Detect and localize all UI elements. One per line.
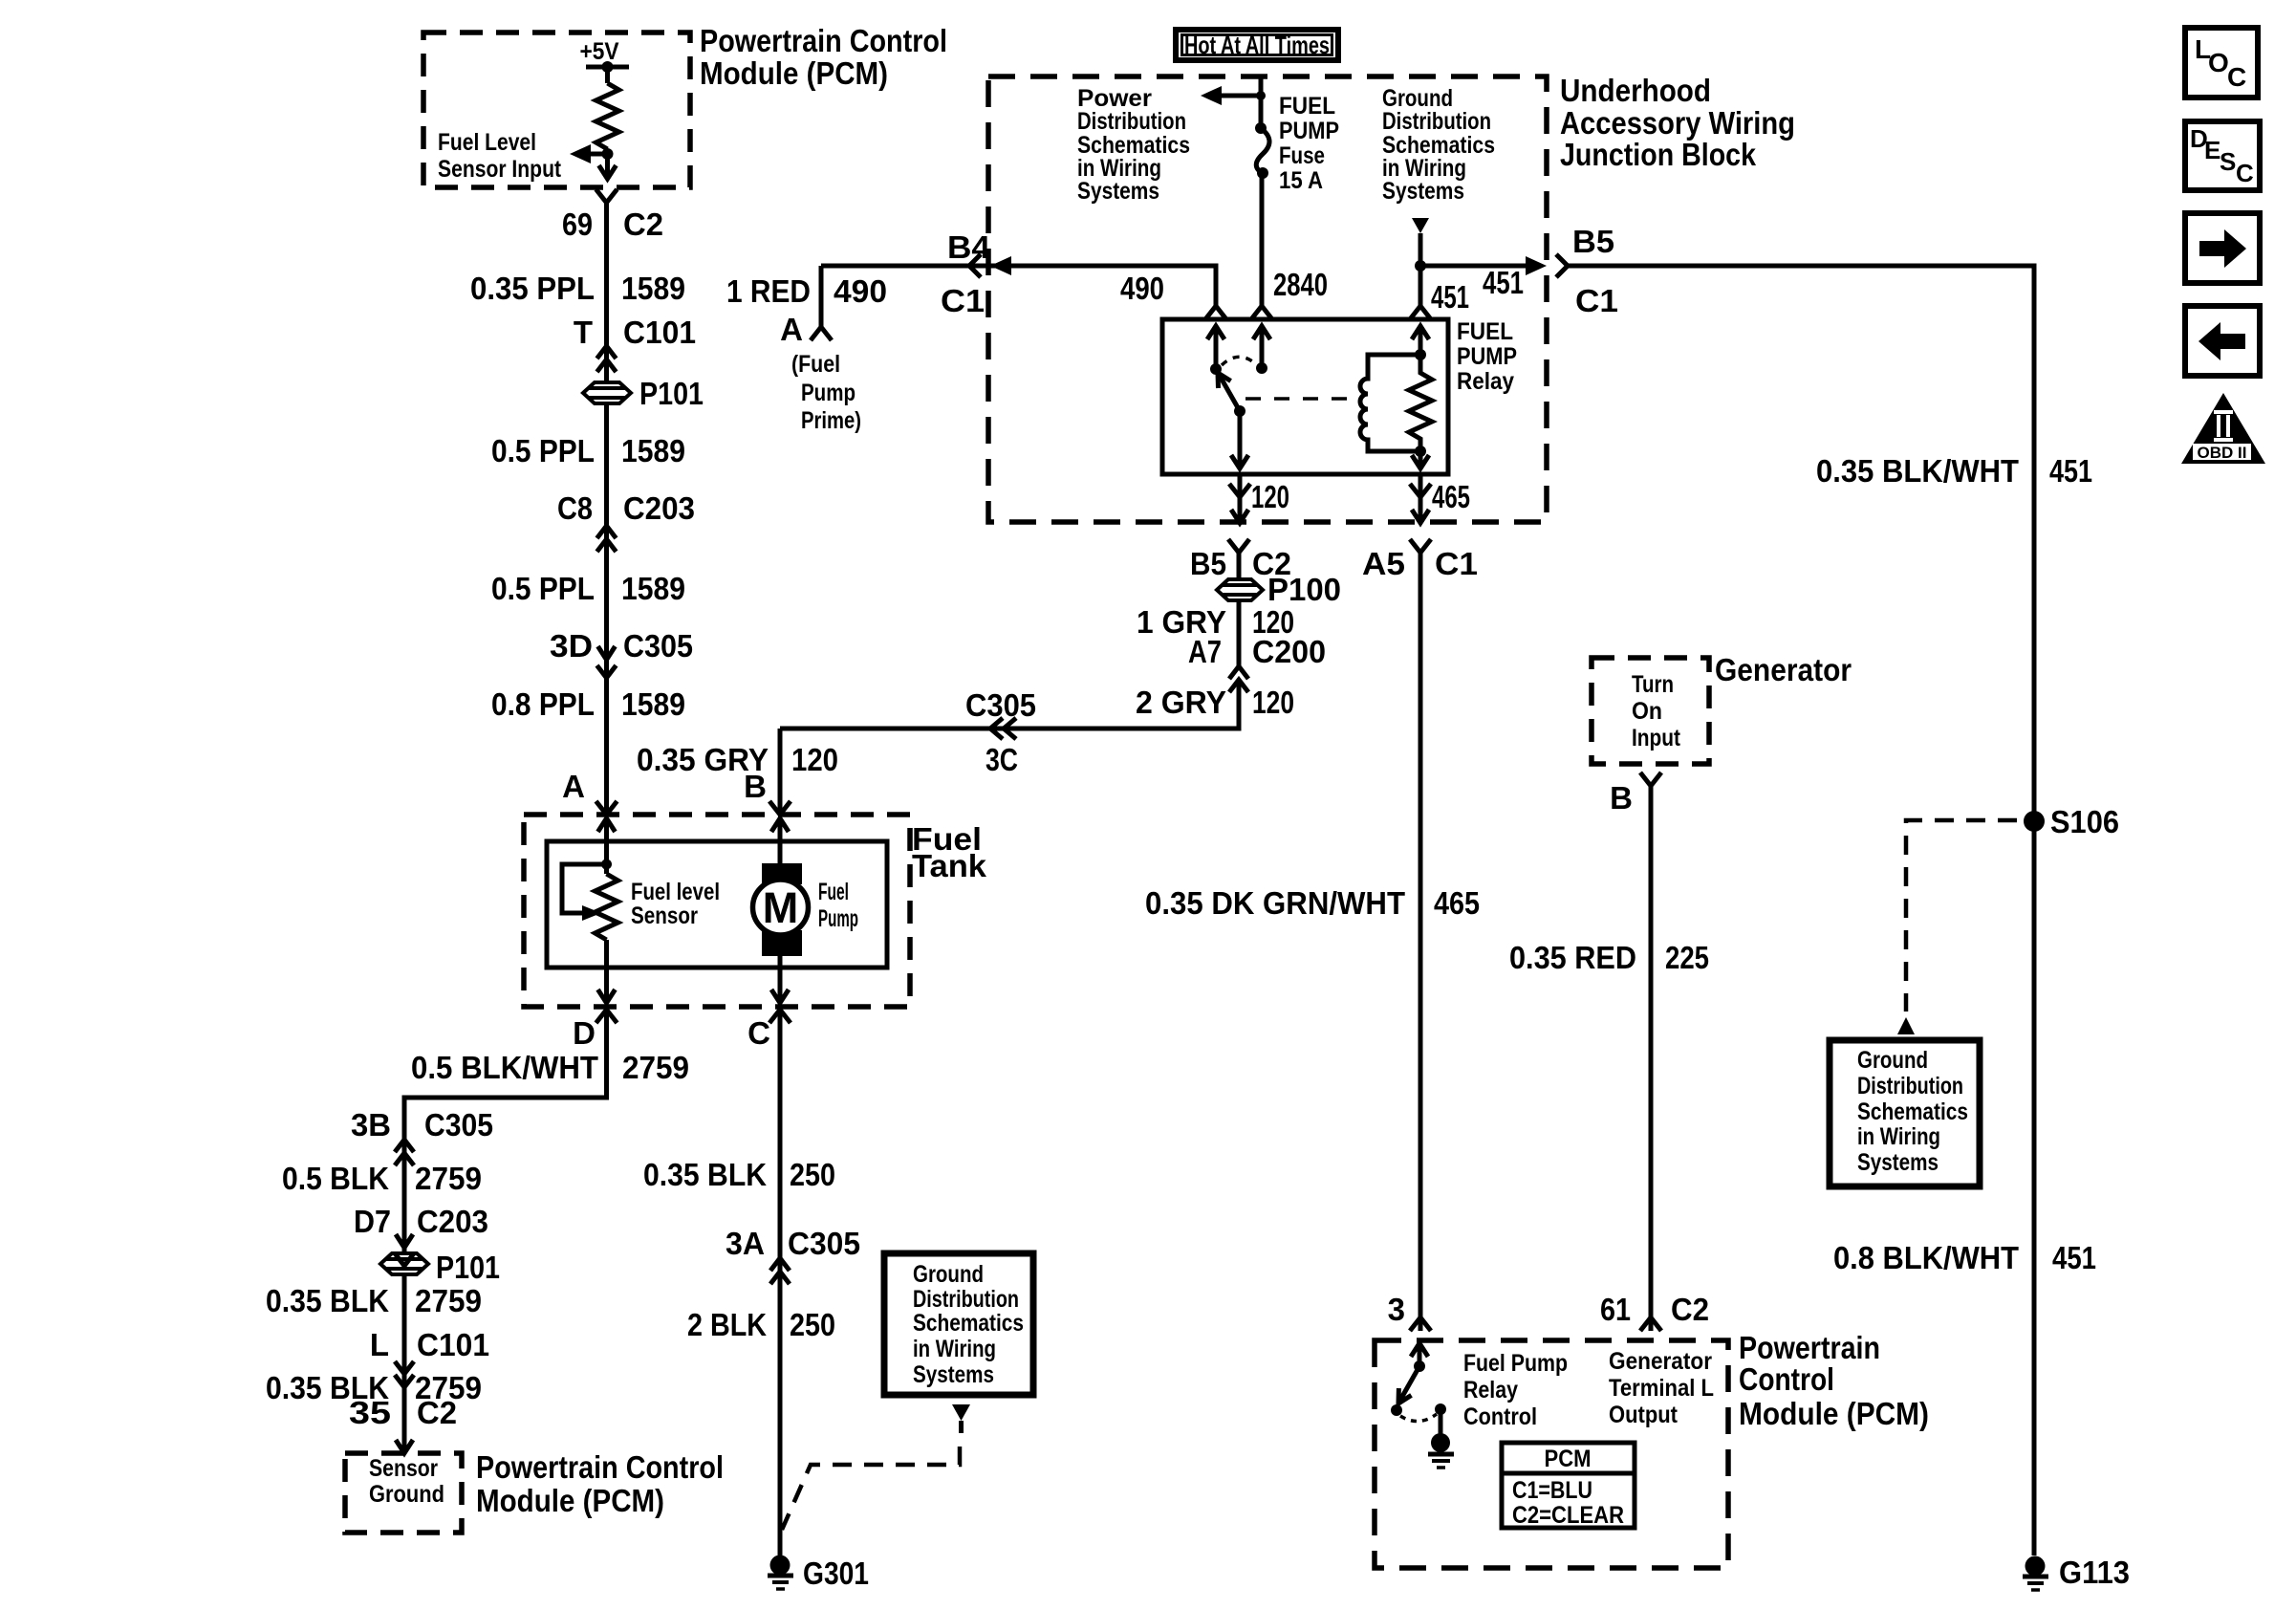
pin chevron B at tank top	[769, 801, 791, 815]
Ground Distribution Schematics box (right)	[1830, 1040, 1980, 1186]
svg-text:Fuel: Fuel	[818, 879, 849, 905]
svg-text:C8: C8	[557, 490, 593, 526]
fuel tank inner unit box	[547, 841, 887, 968]
node S106 splice dot	[2024, 811, 2045, 832]
node: fuse top dot	[1255, 122, 1267, 134]
svg-text:A: A	[780, 312, 803, 347]
arrowhead: pin B entering tank	[771, 818, 789, 832]
svg-text:C1: C1	[1575, 283, 1618, 318]
svg-text:Module (PCM): Module (PCM)	[700, 55, 888, 91]
svg-text:35: 35	[349, 1395, 391, 1430]
wire: pin B into pump	[778, 818, 783, 870]
svg-text:C2: C2	[623, 207, 663, 242]
pin chevron B below generator	[1640, 772, 1661, 786]
icon: OBD II triangle	[2181, 393, 2265, 464]
reference arrow above right box (filled up)	[1897, 1017, 1915, 1034]
wire: prime stub vertical	[819, 266, 824, 327]
wire: coil return down	[1419, 451, 1423, 468]
svg-text:0.35 RED: 0.35 RED	[1509, 940, 1636, 975]
svg-text:C1: C1	[941, 283, 985, 318]
svg-text:Input: Input	[1632, 725, 1681, 751]
wire: coil return 465 to junction edge	[1419, 474, 1423, 522]
svg-text:C1: C1	[1435, 546, 1478, 581]
wire: 0.35 BLK 2759 (P101 to C101)	[402, 1274, 407, 1453]
svg-text:C203: C203	[417, 1204, 488, 1239]
svg-text:Tank: Tank	[912, 848, 987, 883]
fuel pump motor circle M	[753, 880, 809, 935]
svg-text:Underhood: Underhood	[1560, 73, 1711, 108]
arrowhead: power distribution (filled left)	[1201, 86, 1222, 105]
grommet P101	[583, 382, 631, 403]
svg-text:0.8 BLK/WHT: 0.8 BLK/WHT	[1833, 1240, 2019, 1275]
svg-text:2759: 2759	[622, 1050, 689, 1085]
svg-text:S: S	[2220, 147, 2236, 176]
wire: 0.5 PPL 1589 (P101 to C203)	[604, 403, 609, 815]
svg-text:(Fuel: (Fuel	[791, 351, 840, 378]
svg-text:OBD II: OBD II	[2198, 444, 2247, 462]
svg-text:0.8 PPL: 0.8 PPL	[491, 686, 595, 722]
arrowhead: 490 pointing left at B4 (filled)	[990, 256, 1011, 275]
splice arrow + chevron C305	[598, 646, 616, 660]
ground G301 symbol	[768, 1556, 793, 1590]
resistor: fuel level sensor element	[596, 874, 618, 940]
svg-text:Sensor: Sensor	[369, 1455, 438, 1482]
wire: 0.35 PPL 1589 (pin 69 to P101)	[604, 203, 609, 381]
svg-text:2759: 2759	[415, 1283, 482, 1318]
svg-text:120: 120	[1252, 685, 1294, 720]
svg-text:B: B	[744, 769, 767, 804]
Ground Distribution Schematics box (left)	[884, 1253, 1033, 1395]
dashed reference wire from S106	[1906, 820, 2017, 1012]
node: sensor top dot	[601, 859, 612, 870]
node: relay contact dot (2840)	[1256, 362, 1267, 374]
connector chevron A (fuel pump prime stub)	[811, 327, 832, 340]
svg-text:1 RED: 1 RED	[726, 273, 811, 309]
relay coil branch: top node	[1415, 349, 1426, 360]
node: relay common dot	[1234, 405, 1245, 417]
splice chevrons C305 (3B)	[395, 1140, 414, 1165]
wire: +5V to resistor	[605, 67, 610, 83]
svg-text:451: 451	[1431, 279, 1469, 315]
svg-text:Fuel Level: Fuel Level	[438, 129, 536, 156]
node: relay contact dot (490)	[1210, 363, 1222, 375]
grommet P100	[1217, 579, 1263, 600]
wire: 0.5 BLK 2759 (C305 to C203)	[402, 1140, 407, 1253]
svg-text:PUMP: PUMP	[1279, 118, 1339, 144]
splice chevrons C305 (horizontal, 3C)	[990, 718, 1016, 739]
Underhood Accessory Wiring Junction Block dashed box	[988, 76, 1547, 522]
splice chevrons C101	[597, 346, 617, 372]
wire: contact to internal ground	[1439, 1409, 1443, 1434]
svg-text:Hot At All Times: Hot At All Times	[1184, 31, 1330, 59]
+5V supply bar	[586, 65, 629, 70]
svg-text:Pump: Pump	[801, 380, 856, 406]
wire: 490 feed corner into relay	[990, 266, 1216, 306]
PCM (bottom) dashed module box	[1375, 1340, 1728, 1568]
svg-text:3B: 3B	[351, 1107, 391, 1142]
svg-text:C1=BLU: C1=BLU	[1512, 1477, 1592, 1504]
svg-text:in Wiring: in Wiring	[1857, 1123, 1940, 1150]
splice chevrons C305 (3A)	[770, 1258, 790, 1284]
svg-text:490: 490	[1120, 271, 1164, 306]
svg-text:Powertrain: Powertrain	[1739, 1330, 1880, 1365]
svg-text:On: On	[1632, 698, 1662, 725]
svg-text:B5: B5	[1572, 224, 1614, 259]
svg-text:Module (PCM): Module (PCM)	[1739, 1396, 1929, 1431]
svg-text:C: C	[2227, 62, 2246, 92]
svg-text:0.5 BLK/WHT: 0.5 BLK/WHT	[411, 1050, 598, 1085]
svg-text:3A: 3A	[726, 1226, 765, 1261]
wire: pump to pin C	[778, 956, 783, 1003]
reference arrow below left box (filled down)	[952, 1404, 970, 1421]
svg-text:Distribution: Distribution	[1857, 1073, 1963, 1099]
grommet P101 (lower)	[380, 1253, 428, 1274]
svg-text:Control: Control	[1463, 1403, 1537, 1430]
wire: 0.5 BLK/WHT 2759 (pin D jog to C305)	[404, 1010, 607, 1139]
svg-text:Relay: Relay	[1463, 1377, 1518, 1403]
arrowhead: blade pointing to NO contact	[1218, 373, 1231, 388]
svg-text:M: M	[763, 883, 799, 932]
svg-text:P101: P101	[639, 376, 704, 411]
svg-text:3C: 3C	[986, 742, 1018, 777]
wire: 465 DK GRN/WHT (A5 to PCM 3)	[1419, 553, 1423, 1331]
svg-text:C: C	[747, 1015, 770, 1051]
wire: 1 GRY 120 (P100 to C200)	[1237, 600, 1242, 666]
FUEL PUMP Relay box	[1162, 319, 1448, 474]
wire: reference to 451 junction	[1419, 233, 1423, 266]
fuse element FUEL PUMP Fuse 15A	[1256, 128, 1269, 174]
svg-text:Ground: Ground	[1857, 1047, 1928, 1074]
relay actuation link (dashed)	[1245, 397, 1354, 401]
svg-text:250: 250	[790, 1157, 835, 1192]
wire: coil pin lead	[1419, 326, 1423, 355]
svg-text:0.35 DK GRN/WHT: 0.35 DK GRN/WHT	[1145, 885, 1405, 921]
svg-text:Relay: Relay	[1457, 368, 1514, 395]
svg-text:S106: S106	[2050, 804, 2119, 839]
PCM connector legend table	[1502, 1443, 1635, 1529]
svg-text:C203: C203	[623, 490, 695, 526]
node: driver switch top dot	[1414, 1360, 1425, 1372]
relay pin 2840: arrow up + lead	[1253, 326, 1270, 339]
svg-text:Sensor: Sensor	[631, 903, 698, 929]
relay coil suppression resistor	[1409, 355, 1432, 451]
svg-text:Schematics: Schematics	[1857, 1099, 1968, 1125]
svg-text:C2: C2	[417, 1395, 457, 1430]
icon: LOC box	[2185, 28, 2258, 98]
svg-text:C101: C101	[623, 315, 696, 350]
svg-text:PCM: PCM	[1545, 1446, 1592, 1472]
svg-text:Control: Control	[1739, 1361, 1834, 1397]
splice chevrons C200	[1229, 666, 1248, 692]
svg-text:Fuse: Fuse	[1279, 142, 1325, 169]
svg-text:Terminal L: Terminal L	[1609, 1375, 1714, 1402]
pin chevron 61 at PCM	[1640, 1317, 1661, 1331]
wire: pin A into sensor	[604, 818, 609, 874]
svg-text:C305: C305	[788, 1226, 860, 1261]
pin chevron A at tank top	[596, 801, 617, 815]
svg-text:P101: P101	[436, 1250, 500, 1285]
svg-text:465: 465	[1434, 885, 1480, 921]
fuel level sensor wiper loop	[562, 864, 607, 913]
fuel pump motor: bottom brush block	[762, 930, 802, 956]
svg-text:Pump: Pump	[818, 905, 858, 932]
wire: fuse to relay pin (2840)	[1260, 173, 1265, 306]
svg-text:FUEL: FUEL	[1279, 93, 1335, 120]
svg-text:A7: A7	[1188, 634, 1222, 669]
svg-text:Distribution: Distribution	[1382, 108, 1491, 135]
svg-text:G301: G301	[803, 1556, 869, 1591]
connector chevron A5 C1 (below junction block)	[1410, 539, 1431, 553]
arrowhead: 465 at junction block edge	[1412, 510, 1429, 523]
svg-text:C2: C2	[1671, 1292, 1709, 1327]
svg-text:Accessory Wiring: Accessory Wiring	[1560, 105, 1795, 141]
svg-text:FUEL: FUEL	[1457, 318, 1513, 345]
wire: sense node left arm	[589, 152, 608, 157]
svg-text:E: E	[2204, 136, 2220, 164]
svg-text:451: 451	[2052, 1240, 2096, 1275]
relay coil (inductor)	[1360, 355, 1420, 451]
connector pin 69 C2 chevron	[596, 189, 617, 203]
ground G113 symbol	[2023, 1556, 2048, 1591]
svg-text:120: 120	[791, 742, 838, 777]
svg-text:2759: 2759	[415, 1161, 482, 1196]
svg-text:1589: 1589	[621, 686, 685, 722]
arrowhead: pin A entering tank	[598, 818, 616, 832]
svg-text:Ground: Ground	[369, 1481, 444, 1508]
wire: 490 RED horizontal (junction block B4 to prime stub)	[821, 264, 988, 269]
arrowhead: coil return down	[1412, 455, 1429, 468]
node: driver NO contact dot	[1391, 1404, 1402, 1416]
pin chevron D below tank	[596, 1010, 617, 1023]
svg-text:1589: 1589	[621, 571, 685, 606]
svg-text:B4: B4	[947, 229, 991, 265]
PCM driver: arrow up to pin 3	[1411, 1343, 1428, 1357]
relay pin 490: arrow up + lead	[1207, 326, 1224, 339]
svg-text:0.35 BLK: 0.35 BLK	[643, 1157, 767, 1192]
fuel pump motor: top brush block	[762, 863, 802, 884]
svg-text:69: 69	[562, 207, 593, 242]
wire: 451 BLK/WHT (B5 to G113)	[1568, 266, 2034, 1556]
node: fuse bottom dot	[1257, 167, 1268, 179]
wire: sensor to pin D	[604, 940, 609, 1003]
svg-text:D7: D7	[354, 1204, 391, 1239]
wire: B5 C2 to P100	[1237, 553, 1242, 577]
wire: 0.35 RED 225 (generator B to PCM 61)	[1649, 786, 1654, 1331]
svg-text:Powertrain Control: Powertrain Control	[700, 23, 947, 58]
node: +5V junction dot	[602, 61, 614, 73]
svg-text:1589: 1589	[621, 433, 685, 468]
relay switch blade	[1216, 369, 1240, 411]
svg-text:3: 3	[1388, 1292, 1405, 1327]
svg-text:C101: C101	[417, 1327, 489, 1362]
svg-text:in Wiring: in Wiring	[913, 1336, 996, 1362]
connector chevron relay pin 490	[1205, 306, 1226, 319]
arrowhead: relay output down	[1231, 455, 1248, 468]
svg-text:Sensor Input: Sensor Input	[438, 156, 562, 183]
svg-text:Turn: Turn	[1632, 671, 1674, 698]
wire: 0.35 BLK 250 / 2 BLK 250 (pin C to G301)	[778, 1010, 783, 1556]
wire: relay output 120 to junction edge	[1238, 474, 1243, 522]
splice chevrons C203	[597, 526, 617, 552]
splice arrow + chevron C203 (down)	[396, 1234, 413, 1248]
icon: arrow left box	[2185, 306, 2260, 376]
svg-text:O: O	[2208, 48, 2229, 77]
svg-text:Systems: Systems	[1857, 1149, 1939, 1176]
arrowhead: 120 at junction block edge	[1231, 510, 1248, 523]
PCM (top) dashed module box	[423, 33, 690, 187]
svg-text:15 A: 15 A	[1279, 167, 1323, 194]
Hot At All Times flag box	[1176, 30, 1338, 60]
svg-text:490: 490	[834, 273, 887, 309]
svg-text:Generator: Generator	[1609, 1348, 1712, 1375]
arrowhead: sensor input (filled, left)	[570, 144, 591, 163]
svg-text:451: 451	[2049, 453, 2092, 489]
dashed reference wire to G301	[782, 1447, 960, 1530]
svg-text:0.5 PPL: 0.5 PPL	[491, 433, 595, 468]
svg-text:Ground: Ground	[913, 1261, 984, 1288]
svg-text:C2=CLEAR: C2=CLEAR	[1512, 1502, 1624, 1529]
arrowhead: wiper (filled right)	[582, 905, 601, 921]
svg-text:L: L	[370, 1327, 389, 1362]
svg-text:451: 451	[1483, 265, 1524, 300]
connector chevron 465 below relay	[1410, 484, 1431, 497]
svg-text:C305: C305	[965, 687, 1036, 723]
wire: 2 GRY 120 down and left to tank B	[780, 680, 1239, 729]
arrowhead: pin D leaving tank	[598, 990, 616, 1003]
svg-text:2840: 2840	[1273, 267, 1328, 302]
svg-text:Distribution: Distribution	[1077, 108, 1186, 135]
connector chevron 120 below relay	[1229, 484, 1250, 497]
icon: arrow right box	[2185, 213, 2260, 283]
svg-text:Output: Output	[1609, 1402, 1679, 1428]
wire: battery feed into fuse (2840)	[1259, 76, 1264, 128]
svg-text:Systems: Systems	[1077, 178, 1159, 205]
relay contact travel arc (dashed)	[1222, 357, 1256, 365]
pin chevron C below tank	[769, 1010, 791, 1023]
svg-text:P100: P100	[1267, 572, 1341, 607]
arrowhead: pin C leaving tank	[771, 990, 789, 1003]
svg-text:Generator: Generator	[1715, 652, 1852, 687]
svg-text:250: 250	[790, 1307, 835, 1342]
svg-text:Fuel Pump: Fuel Pump	[1463, 1350, 1568, 1377]
ground distribution reference arrow (filled down)	[1412, 218, 1429, 233]
node: sense junction dot	[602, 148, 614, 160]
wire: 451 junction to relay coil pin	[1419, 266, 1423, 306]
wire: relay common down	[1238, 411, 1243, 468]
svg-text:C: C	[2236, 159, 2254, 187]
svg-text:465: 465	[1432, 479, 1470, 514]
arrowhead: into sensor ground	[396, 1440, 413, 1453]
svg-text:G113: G113	[2059, 1555, 2130, 1590]
svg-text:D: D	[573, 1015, 596, 1051]
svg-text:0.35 PPL: 0.35 PPL	[470, 271, 595, 306]
svg-text:1589: 1589	[621, 271, 685, 306]
Sensor Ground dashed box (PCM)	[345, 1453, 462, 1533]
connector B4 chevron at junction block edge	[969, 254, 981, 277]
svg-text:C305: C305	[623, 628, 693, 664]
svg-text:B: B	[1610, 780, 1633, 816]
svg-text:3D: 3D	[550, 628, 593, 664]
wire: tank B feed down	[778, 729, 783, 815]
connector chevron relay pin 451	[1410, 306, 1431, 319]
svg-text:Module (PCM): Module (PCM)	[476, 1483, 664, 1518]
pin chevron 3 at PCM	[1410, 1317, 1431, 1331]
svg-text:Distribution: Distribution	[913, 1286, 1019, 1313]
svg-text:T: T	[574, 315, 593, 350]
driver contact travel arc (dashed)	[1400, 1414, 1437, 1422]
svg-text:Prime): Prime)	[801, 407, 861, 434]
arrowhead: 451 pointing right at B5 (filled)	[1526, 256, 1547, 275]
wire: tap to power distribution arrow	[1206, 94, 1261, 98]
icon: DESC box	[2185, 121, 2260, 190]
svg-text:Systems: Systems	[913, 1361, 994, 1388]
arrowhead: down into pin 69	[599, 165, 617, 179]
svg-text:Junction Block: Junction Block	[1560, 137, 1757, 172]
svg-text:Systems: Systems	[1382, 178, 1464, 205]
svg-text:Fuel level: Fuel level	[631, 879, 720, 905]
svg-text:C200: C200	[1252, 634, 1326, 669]
node: driver ground contact dot	[1435, 1403, 1446, 1415]
svg-text:+5V: +5V	[580, 38, 619, 65]
svg-text:2 GRY: 2 GRY	[1136, 685, 1226, 720]
svg-text:Schematics: Schematics	[913, 1310, 1024, 1337]
svg-text:Powertrain Control: Powertrain Control	[476, 1449, 724, 1485]
svg-text:0.5 PPL: 0.5 PPL	[491, 571, 595, 606]
svg-text:225: 225	[1665, 940, 1709, 975]
wire: 451 horizontal to B5 exit	[1420, 264, 1529, 269]
svg-text:B5: B5	[1190, 546, 1226, 581]
svg-text:A5: A5	[1362, 546, 1405, 581]
svg-text:C305: C305	[424, 1107, 493, 1142]
Fuel Tank dashed box	[524, 815, 910, 1007]
resistor R (fuel level pull-up)	[596, 83, 619, 149]
wire: sense node down arrow	[605, 154, 610, 177]
node: power distribution tap dot	[1256, 91, 1266, 100]
driver switch blade	[1399, 1366, 1419, 1402]
internal ground symbol	[1428, 1433, 1454, 1468]
node: coil bottom dot	[1415, 446, 1426, 457]
wire: resistor to sense node	[605, 149, 610, 154]
Generator dashed box	[1592, 658, 1709, 764]
svg-text:0.35 BLK: 0.35 BLK	[266, 1283, 389, 1318]
connector chevron B5 C2 (below junction block)	[1228, 539, 1249, 553]
connector chevron relay pin 2840	[1251, 306, 1272, 319]
svg-text:61: 61	[1600, 1292, 1631, 1327]
svg-text:PUMP: PUMP	[1457, 343, 1517, 370]
arrowhead: blade down-left	[1398, 1388, 1412, 1403]
svg-text:A: A	[562, 769, 585, 804]
splice chevrons C101 (down)	[395, 1361, 414, 1387]
svg-text:2 BLK: 2 BLK	[687, 1307, 767, 1342]
svg-text:0.35 BLK/WHT: 0.35 BLK/WHT	[1816, 453, 2019, 489]
connector B5 chevron at junction block right edge	[1556, 254, 1568, 277]
node: 451 junction dot	[1415, 260, 1426, 272]
svg-text:0.5 BLK: 0.5 BLK	[282, 1161, 389, 1196]
svg-text:120: 120	[1251, 479, 1289, 514]
